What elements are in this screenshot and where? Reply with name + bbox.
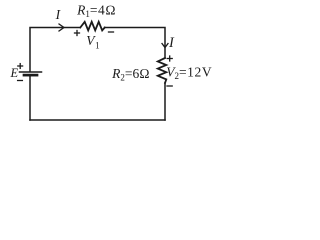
svg-text:R1=4Ω: R1=4Ω: [76, 3, 116, 20]
svg-text:I: I: [168, 35, 175, 51]
svg-text:E: E: [10, 66, 19, 80]
svg-text:R2=6Ω: R2=6Ω: [111, 66, 149, 83]
svg-text:V2=12V: V2=12V: [166, 64, 212, 81]
svg-text:I: I: [55, 7, 62, 22]
svg-text:1: 1: [95, 41, 100, 51]
